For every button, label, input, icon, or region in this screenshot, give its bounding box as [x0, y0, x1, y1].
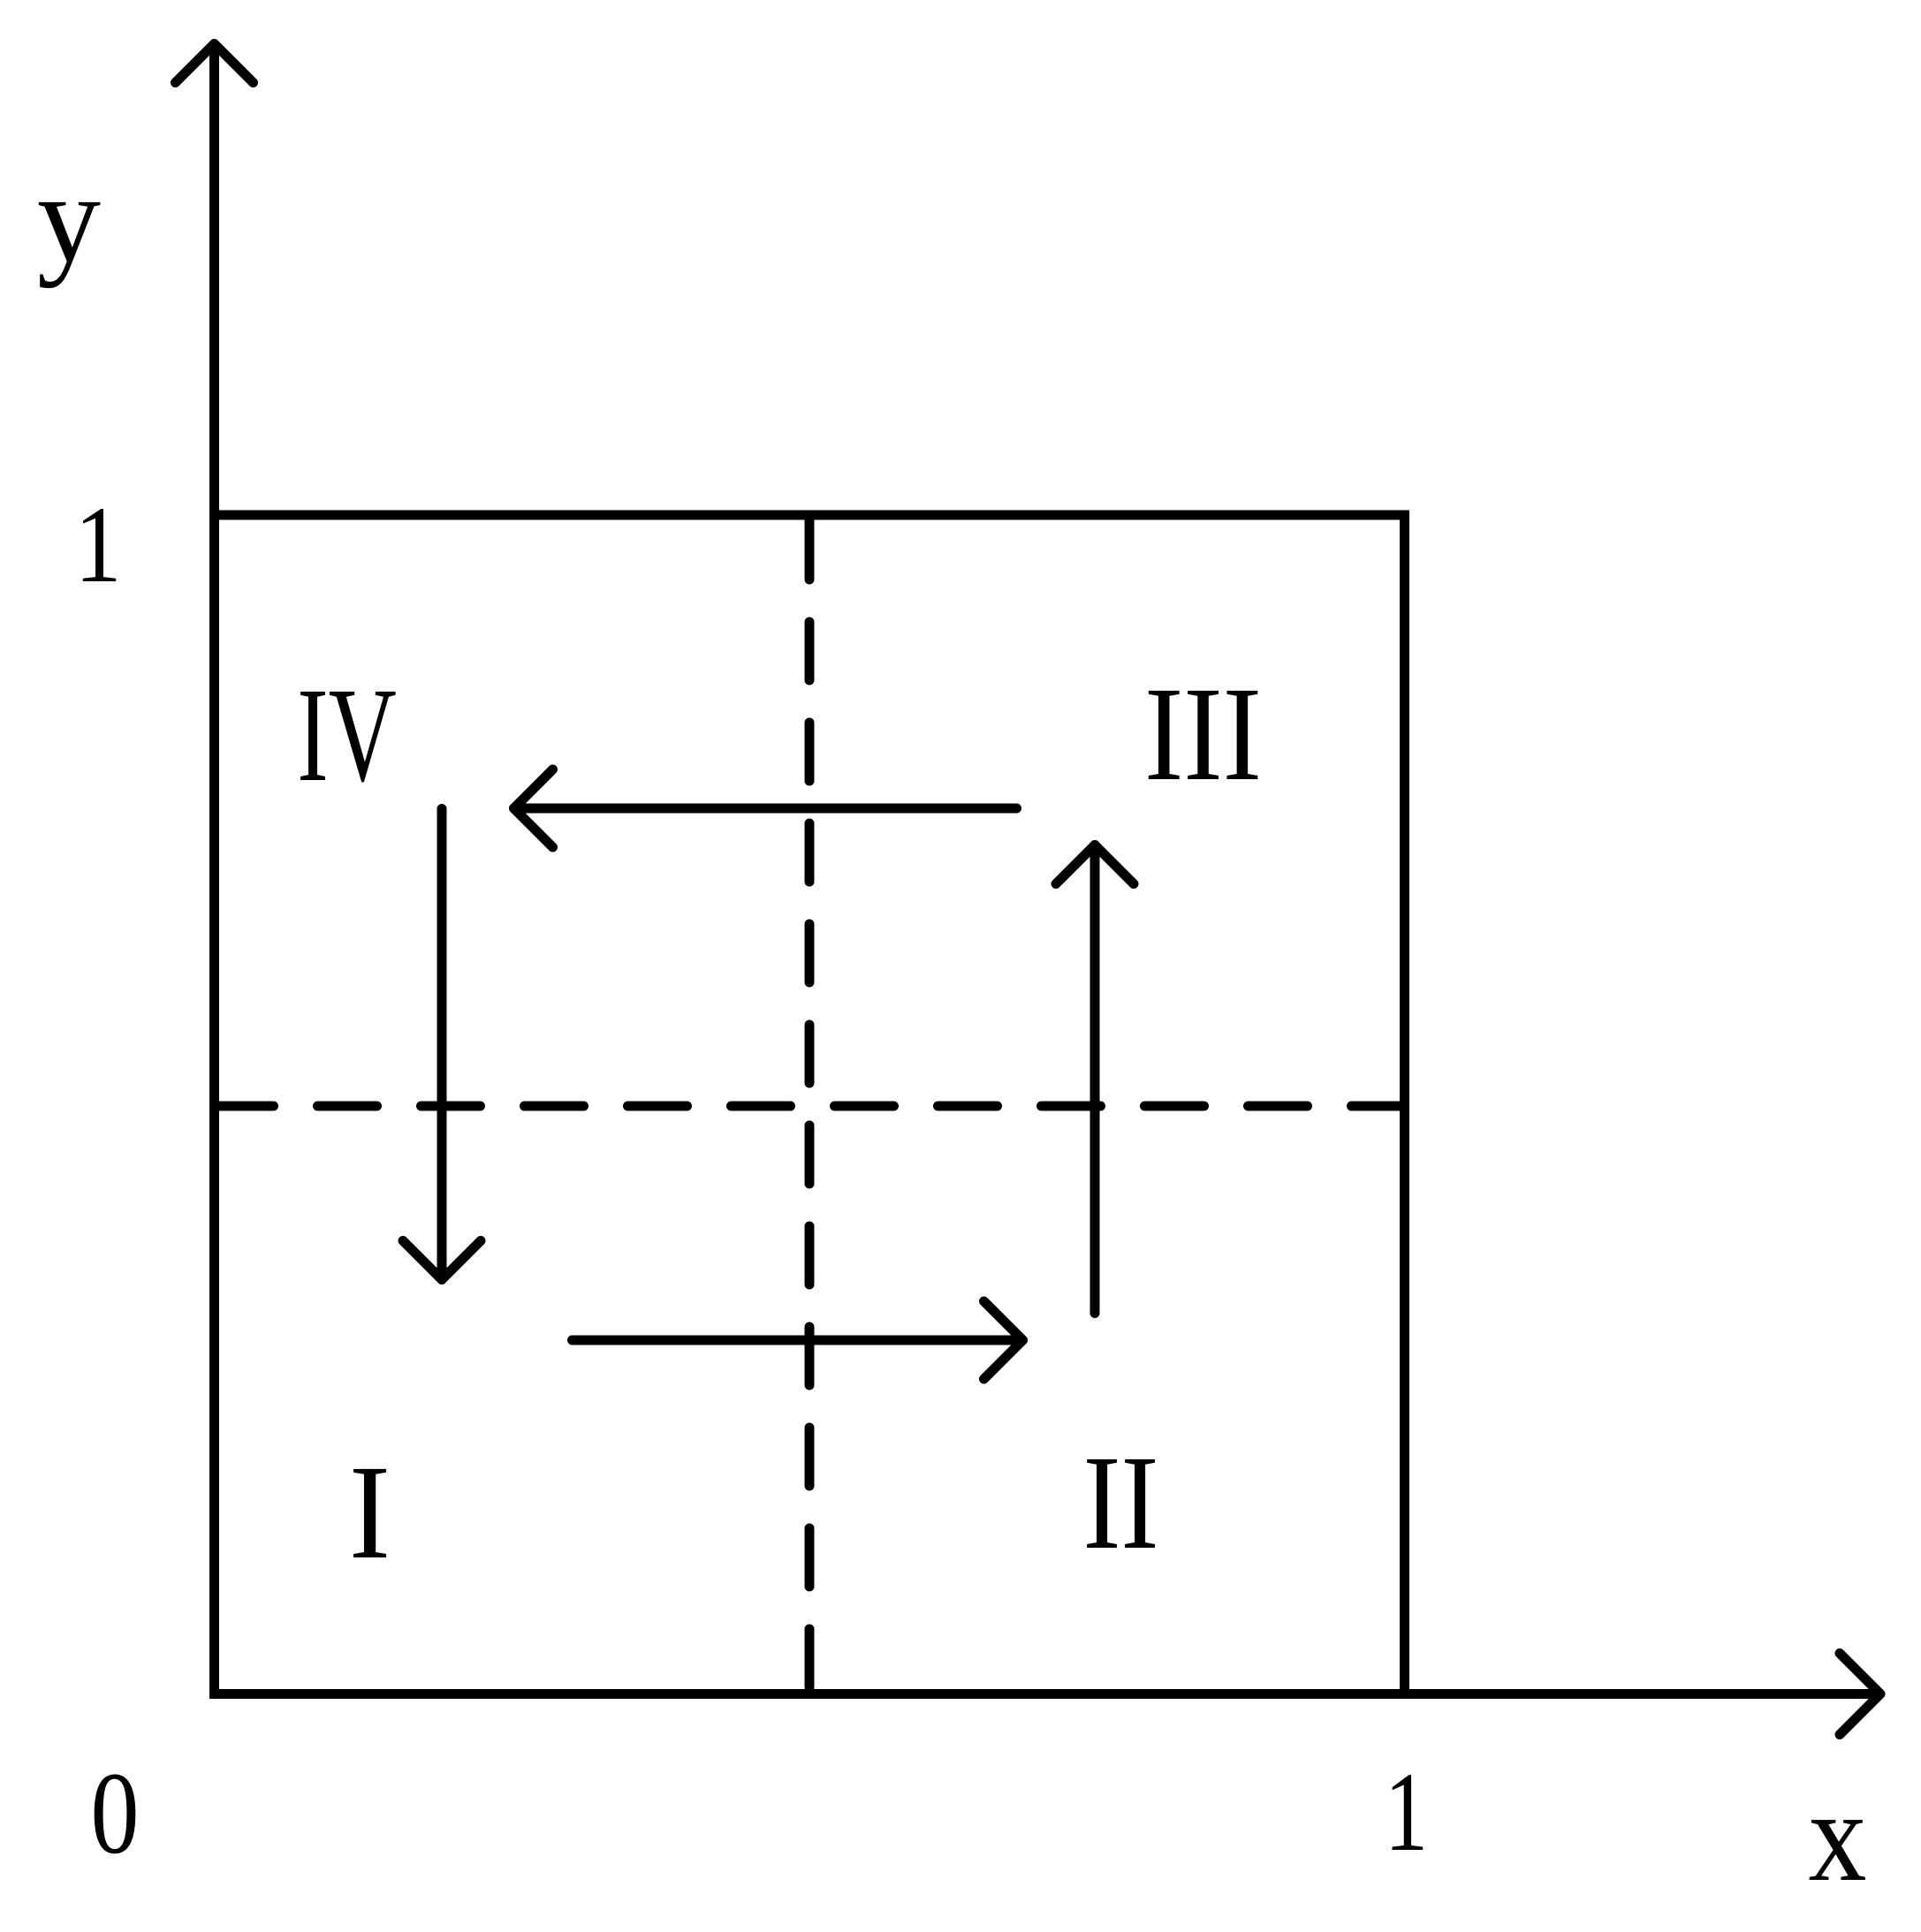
arrow right (I to II) — [573, 1301, 1023, 1379]
x-axis — [209, 1654, 1880, 1735]
svg-text:0: 0 — [91, 1747, 140, 1878]
arrow down (IV to I) — [403, 809, 481, 1280]
svg-text:I: I — [349, 1438, 391, 1587]
horizontal dashed midline y=0.5 — [215, 1102, 1405, 1111]
y-axis — [176, 44, 254, 1694]
svg-text:x: x — [1809, 1764, 1867, 1909]
svg-text:y: y — [37, 148, 101, 289]
arrow left (III to IV) — [514, 769, 1017, 847]
svg-text:II: II — [1083, 1428, 1159, 1578]
unit square border — [215, 515, 1405, 1694]
svg-text:1: 1 — [75, 484, 122, 605]
svg-text:IV: IV — [297, 661, 397, 810]
arrow up (II to III) — [1056, 845, 1134, 1314]
svg-text:1: 1 — [1385, 1748, 1428, 1875]
vertical dashed midline x=0.5 — [805, 521, 815, 1694]
svg-text:III: III — [1144, 660, 1262, 809]
